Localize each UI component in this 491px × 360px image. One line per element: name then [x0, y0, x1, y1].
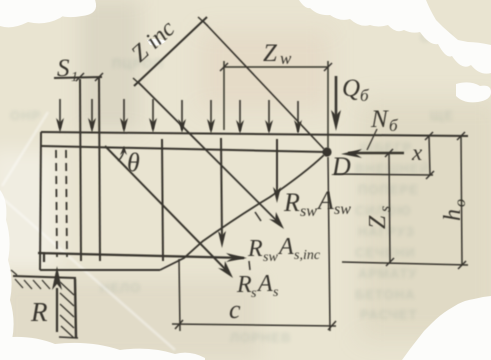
stirrup 3 — [162, 139, 163, 261]
theta arc arrowhead — [120, 146, 127, 155]
vertical V1 through D — [327, 61, 329, 148]
c left extension — [179, 259, 180, 331]
svg-text:Z: Z — [263, 40, 278, 67]
svg-text:Q: Q — [342, 75, 360, 102]
Nb leader — [367, 129, 377, 150]
s1 dimension — [54, 77, 102, 78]
svg-text:s,inc: s,inc — [294, 248, 321, 263]
svg-text:θ: θ — [127, 148, 140, 177]
paper creases — [0, 112, 175, 350]
svg-text:R: R — [30, 297, 48, 327]
svg-text:s: s — [377, 206, 394, 212]
stirrup 5 force arrowhead — [273, 187, 281, 203]
tick after RsAs arrow — [249, 261, 250, 270]
stirrup 2 — [99, 78, 100, 261]
stirrup 5 with force arrow Rsw Asw — [276, 139, 278, 194]
svg-text:б: б — [360, 86, 369, 105]
svg-text:S: S — [57, 55, 70, 82]
svg-text:A: A — [256, 271, 273, 297]
svg-text:D: D — [331, 152, 351, 181]
support hatching band — [60, 282, 74, 338]
svg-text:s: s — [273, 285, 279, 300]
stirrup 4 force arrowhead — [218, 231, 226, 248]
c extension below D — [328, 157, 330, 331]
dimension ticks — [76, 17, 466, 330]
support top line — [13, 276, 76, 278]
label Zs rotated — [365, 206, 394, 229]
svg-text:б: б — [389, 116, 398, 135]
dashed line a — [56, 150, 57, 257]
ho ticks — [457, 132, 465, 140]
svg-text:sw: sw — [300, 203, 317, 220]
svg-text:h: h — [440, 209, 466, 221]
svg-text:o: o — [452, 199, 469, 207]
c dimension line — [172, 324, 336, 326]
svg-text:A: A — [316, 186, 334, 215]
svg-text:N: N — [370, 106, 389, 133]
Zw ticks — [220, 63, 228, 71]
ho dimension line — [461, 136, 462, 265]
svg-text:w: w — [280, 49, 292, 68]
svg-text:s: s — [251, 286, 257, 301]
Qb arrowhead — [331, 110, 341, 131]
bent-up bar L1 with arrow — [105, 146, 228, 272]
Zw left extension — [223, 61, 225, 130]
inclined crack — [160, 155, 324, 270]
svg-text:Z inc: Z inc — [127, 15, 181, 67]
load arrows — [60, 99, 298, 132]
Z inc left extension / Rsw As,inc force line — [138, 82, 280, 224]
label ho rotated — [440, 199, 469, 221]
svg-text:sw: sw — [263, 250, 278, 265]
bottom extension line right — [342, 262, 468, 265]
x-dim vertical — [429, 136, 430, 175]
svg-text:1: 1 — [71, 70, 78, 85]
RsAs horizontal arrowhead — [226, 253, 247, 262]
bent bar force arrowhead (RsAs diag) — [218, 261, 233, 278]
stirrup 4 with force arrow Rsw Asw — [221, 138, 222, 240]
c ticks — [175, 320, 183, 329]
tick near RswAs,inc arrowhead — [255, 212, 261, 221]
beam left edge — [40, 132, 41, 270]
svg-text:sw: sw — [334, 201, 351, 218]
svg-text:R: R — [283, 188, 300, 217]
svg-text:x: x — [411, 140, 423, 165]
paper shading blobs — [80, 0, 140, 130]
Zs ticks — [385, 149, 393, 157]
beam bottom rebar — [38, 252, 244, 262]
beam bottom edge — [40, 269, 160, 271]
svg-text:R: R — [247, 236, 263, 262]
R reaction arrow shaft — [56, 288, 58, 332]
support bottom cap — [59, 337, 78, 338]
Qb force arrow — [335, 76, 338, 121]
RswAs,inc arrowhead — [269, 212, 284, 229]
arrowheads (solid) — [52, 110, 362, 290]
Zs dimension line — [389, 153, 390, 263]
beam top rebar — [41, 146, 326, 152]
dashed line b — [66, 150, 67, 257]
x-dim bottom line — [334, 174, 433, 175]
Nb arrowhead — [341, 149, 362, 158]
stirrup 1 — [80, 79, 81, 261]
Z inc right extension to D — [203, 21, 324, 149]
Nb force arrow shaft — [348, 152, 404, 154]
Zw dimension line — [224, 66, 328, 68]
Zinc ticks — [133, 78, 143, 87]
Z inc dimension line — [134, 17, 207, 86]
s1 ticks — [76, 73, 84, 81]
ghost show-through text rows — [360, 140, 412, 155]
svg-text:c: c — [229, 295, 241, 324]
support vertical — [75, 279, 76, 338]
beam top edge (extends right as x-dim top line) — [41, 132, 468, 136]
x-dim ticks — [425, 132, 433, 140]
theta arc — [118, 148, 124, 161]
svg-text:A: A — [277, 234, 294, 260]
support hatching top — [11, 270, 50, 289]
svg-text:R: R — [236, 272, 252, 298]
load arrowheads — [56, 118, 64, 133]
node D dot — [322, 147, 331, 156]
R reaction arrowhead — [52, 266, 62, 290]
svg-text:Z: Z — [365, 215, 391, 229]
